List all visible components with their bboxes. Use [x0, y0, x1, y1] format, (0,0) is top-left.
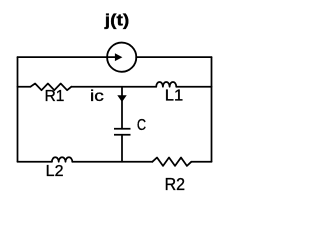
svg-text:L2: L2 [46, 163, 64, 180]
mid wire R1 to L1 [71, 86, 156, 88]
wire right edge [211, 57, 213, 162]
current source J1 circle [107, 43, 136, 72]
bottom wire left to L2 [18, 161, 52, 163]
svg-text:R2: R2 [165, 174, 185, 194]
current source arrow [115, 53, 123, 61]
wire current source to top right [136, 56, 211, 58]
bottom wire R2 to right [191, 161, 211, 163]
svg-text:C: C [137, 117, 146, 134]
svg-text:ic: ic [90, 88, 104, 105]
svg-text:L1: L1 [165, 88, 184, 105]
svg-text:R1: R1 [45, 88, 65, 105]
capacitor branch lower wire [121, 135, 123, 162]
mid wire left to R1 [18, 86, 31, 88]
mid wire L1 to right [176, 86, 211, 88]
wire left edge [17, 57, 19, 162]
capacitor current arrow [117, 95, 126, 102]
wire top left to current source [18, 56, 117, 58]
resistor R1 [31, 84, 72, 91]
resistor R2 [152, 158, 191, 166]
capacitor C bottom plate [114, 134, 131, 136]
capacitor C top plate [114, 128, 131, 130]
bottom wire L2 to R2 [72, 161, 152, 163]
svg-text:j(t): j(t) [104, 11, 130, 30]
capacitor branch upper wire [121, 87, 123, 129]
inductor L1 [156, 82, 176, 87]
inductor L2 [52, 157, 72, 162]
